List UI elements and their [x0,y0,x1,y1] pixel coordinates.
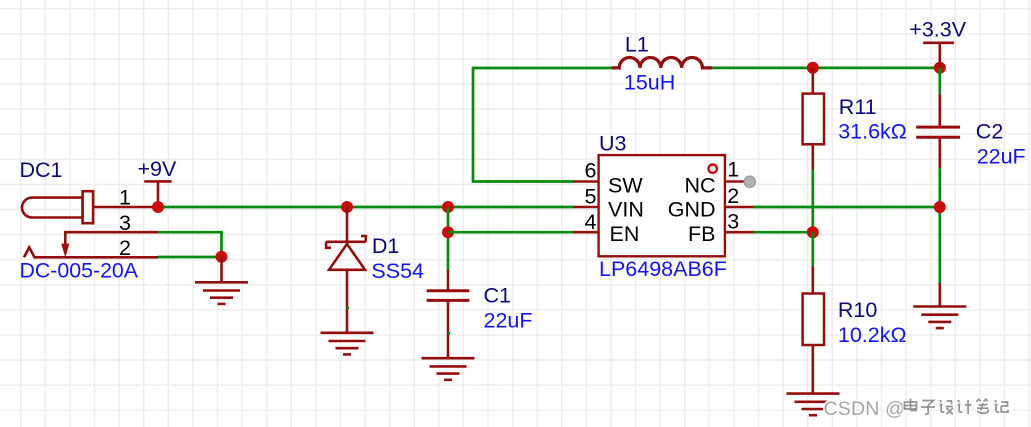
capacitor C1 plates [427,291,470,301]
ground symbol under C1 [422,358,475,380]
connector DC1 barrel [22,198,83,218]
capacitor C1 pin bottom [447,300,450,358]
capacitor C2 pin top [938,94,941,127]
svg-text:DC1: DC1 [20,158,63,182]
svg-text:3: 3 [727,209,739,233]
watermark CSDN [824,398,906,420]
diode D1 pin top [346,207,349,244]
U3 pin 4 stub [573,231,599,234]
ground symbol under DC1 [195,257,248,304]
svg-text:U3: U3 [599,132,627,156]
svg-text:D1: D1 [372,234,399,258]
设 [940,400,953,414]
U3 pin 6 stub [573,180,599,183]
笔 [977,399,989,413]
wire R11 to FB [811,170,814,233]
resistor R10 body [803,294,824,346]
wire EN net [448,231,574,234]
junction C1/VIN [442,201,454,213]
svg-text:EN: EN [610,222,640,246]
no-ERC marker on pin 1 [744,176,755,187]
polarity dot inside U3 [709,165,717,173]
svg-text:L1: L1 [625,33,649,57]
wire C2 top [938,68,941,95]
watermark chinese glyphs [905,399,1009,415]
svg-text:10.2kΩ: 10.2kΩ [838,323,907,347]
wire-end speck on D1 stem [347,306,350,309]
DC1 pin 1 [93,206,158,209]
U3 pin 2 stub [725,206,754,209]
U3 pin 1 stub [725,180,747,183]
wire C2 to GND net [938,168,941,283]
子 [921,401,935,415]
svg-text:5: 5 [585,184,597,208]
svg-text:31.6kΩ: 31.6kΩ [838,120,907,144]
junction +9V [152,201,164,213]
connector DC1 flange [83,191,94,223]
记 [995,400,1009,413]
junction R11 top [807,62,819,74]
svg-text:SW: SW [608,174,643,198]
svg-text:LP6498AB6F: LP6498AB6F [599,257,727,281]
svg-text:DC-005-20A: DC-005-20A [20,259,139,283]
diode D1 pin bottom [346,270,349,333]
svg-text:R10: R10 [838,298,877,322]
svg-text:+9V: +9V [138,157,178,181]
svg-text:6: 6 [585,158,597,182]
svg-text:3: 3 [119,211,131,235]
svg-text:VIN: VIN [608,198,644,222]
capacitor C1 pin top [447,270,450,291]
svg-text:R11: R11 [839,95,877,119]
ground symbol under D1 [321,333,374,355]
svg-text:1: 1 [727,158,739,182]
svg-text:C1: C1 [484,283,511,307]
U3 pin 3 stub [725,231,754,234]
DC1 pin 3 [65,232,158,246]
svg-text:CSDN @: CSDN @ [824,398,906,420]
diode D1 schottky cathode bar [326,236,366,248]
capacitor C2 plates [916,127,960,137]
power port +3.3V [923,43,954,68]
resistor R10 pin top [811,266,814,293]
svg-text:FB: FB [688,222,715,246]
svg-text:2: 2 [119,236,131,260]
ground symbol under C2 [913,283,966,328]
junction C2/GND [934,201,946,213]
DC1 pin 2 [24,247,158,257]
svg-text:15uH: 15uH [624,71,675,95]
junction D1/VIN [341,201,353,213]
junction EN tee [442,226,454,238]
wire FB net [754,231,813,234]
svg-text:SS54: SS54 [371,259,424,283]
wire VIN net horizontal [158,206,574,209]
wire DC1 pin2 to ground [158,256,222,259]
junction FB [807,226,819,238]
resistor R11 pin bottom [811,144,814,169]
inductor L1 [612,57,713,67]
svg-text:22uF: 22uF [977,145,1026,169]
svg-text:+3.3V: +3.3V [909,18,966,42]
resistor R10 pin bottom [811,345,814,394]
DC1 pin 3 arrowhead [61,244,69,258]
capacitor C2 pin bottom [938,137,941,168]
wire-end speck on C1 stem [448,332,451,335]
wire C1 drop [447,207,450,270]
svg-text:22uF: 22uF [484,308,533,332]
svg-text:1: 1 [119,186,131,210]
diode D1 triangle [329,244,365,270]
wire SW net vertical [473,68,612,182]
计 [958,400,972,414]
ground symbol under R10 [787,394,840,416]
wire FB to R10 [811,232,814,266]
resistor R11 pin top [811,68,814,94]
power port +9V [144,181,171,207]
resistor R11 body [803,94,824,145]
IC U3 body [599,155,725,256]
svg-text:2: 2 [727,184,739,208]
junction +3.3V/C2 [934,62,946,74]
junction at DC ground [216,251,228,263]
svg-text:GND: GND [668,198,716,222]
wire L1 to +3.3V rail [712,67,940,70]
svg-text:4: 4 [585,210,597,234]
svg-text:C2: C2 [976,120,1003,144]
wire DC1 pin3 to ground [158,232,222,257]
电 [905,399,917,411]
U3 pin 5 stub [573,206,599,209]
wire GND net [754,206,940,209]
svg-text:NC: NC [684,174,715,198]
